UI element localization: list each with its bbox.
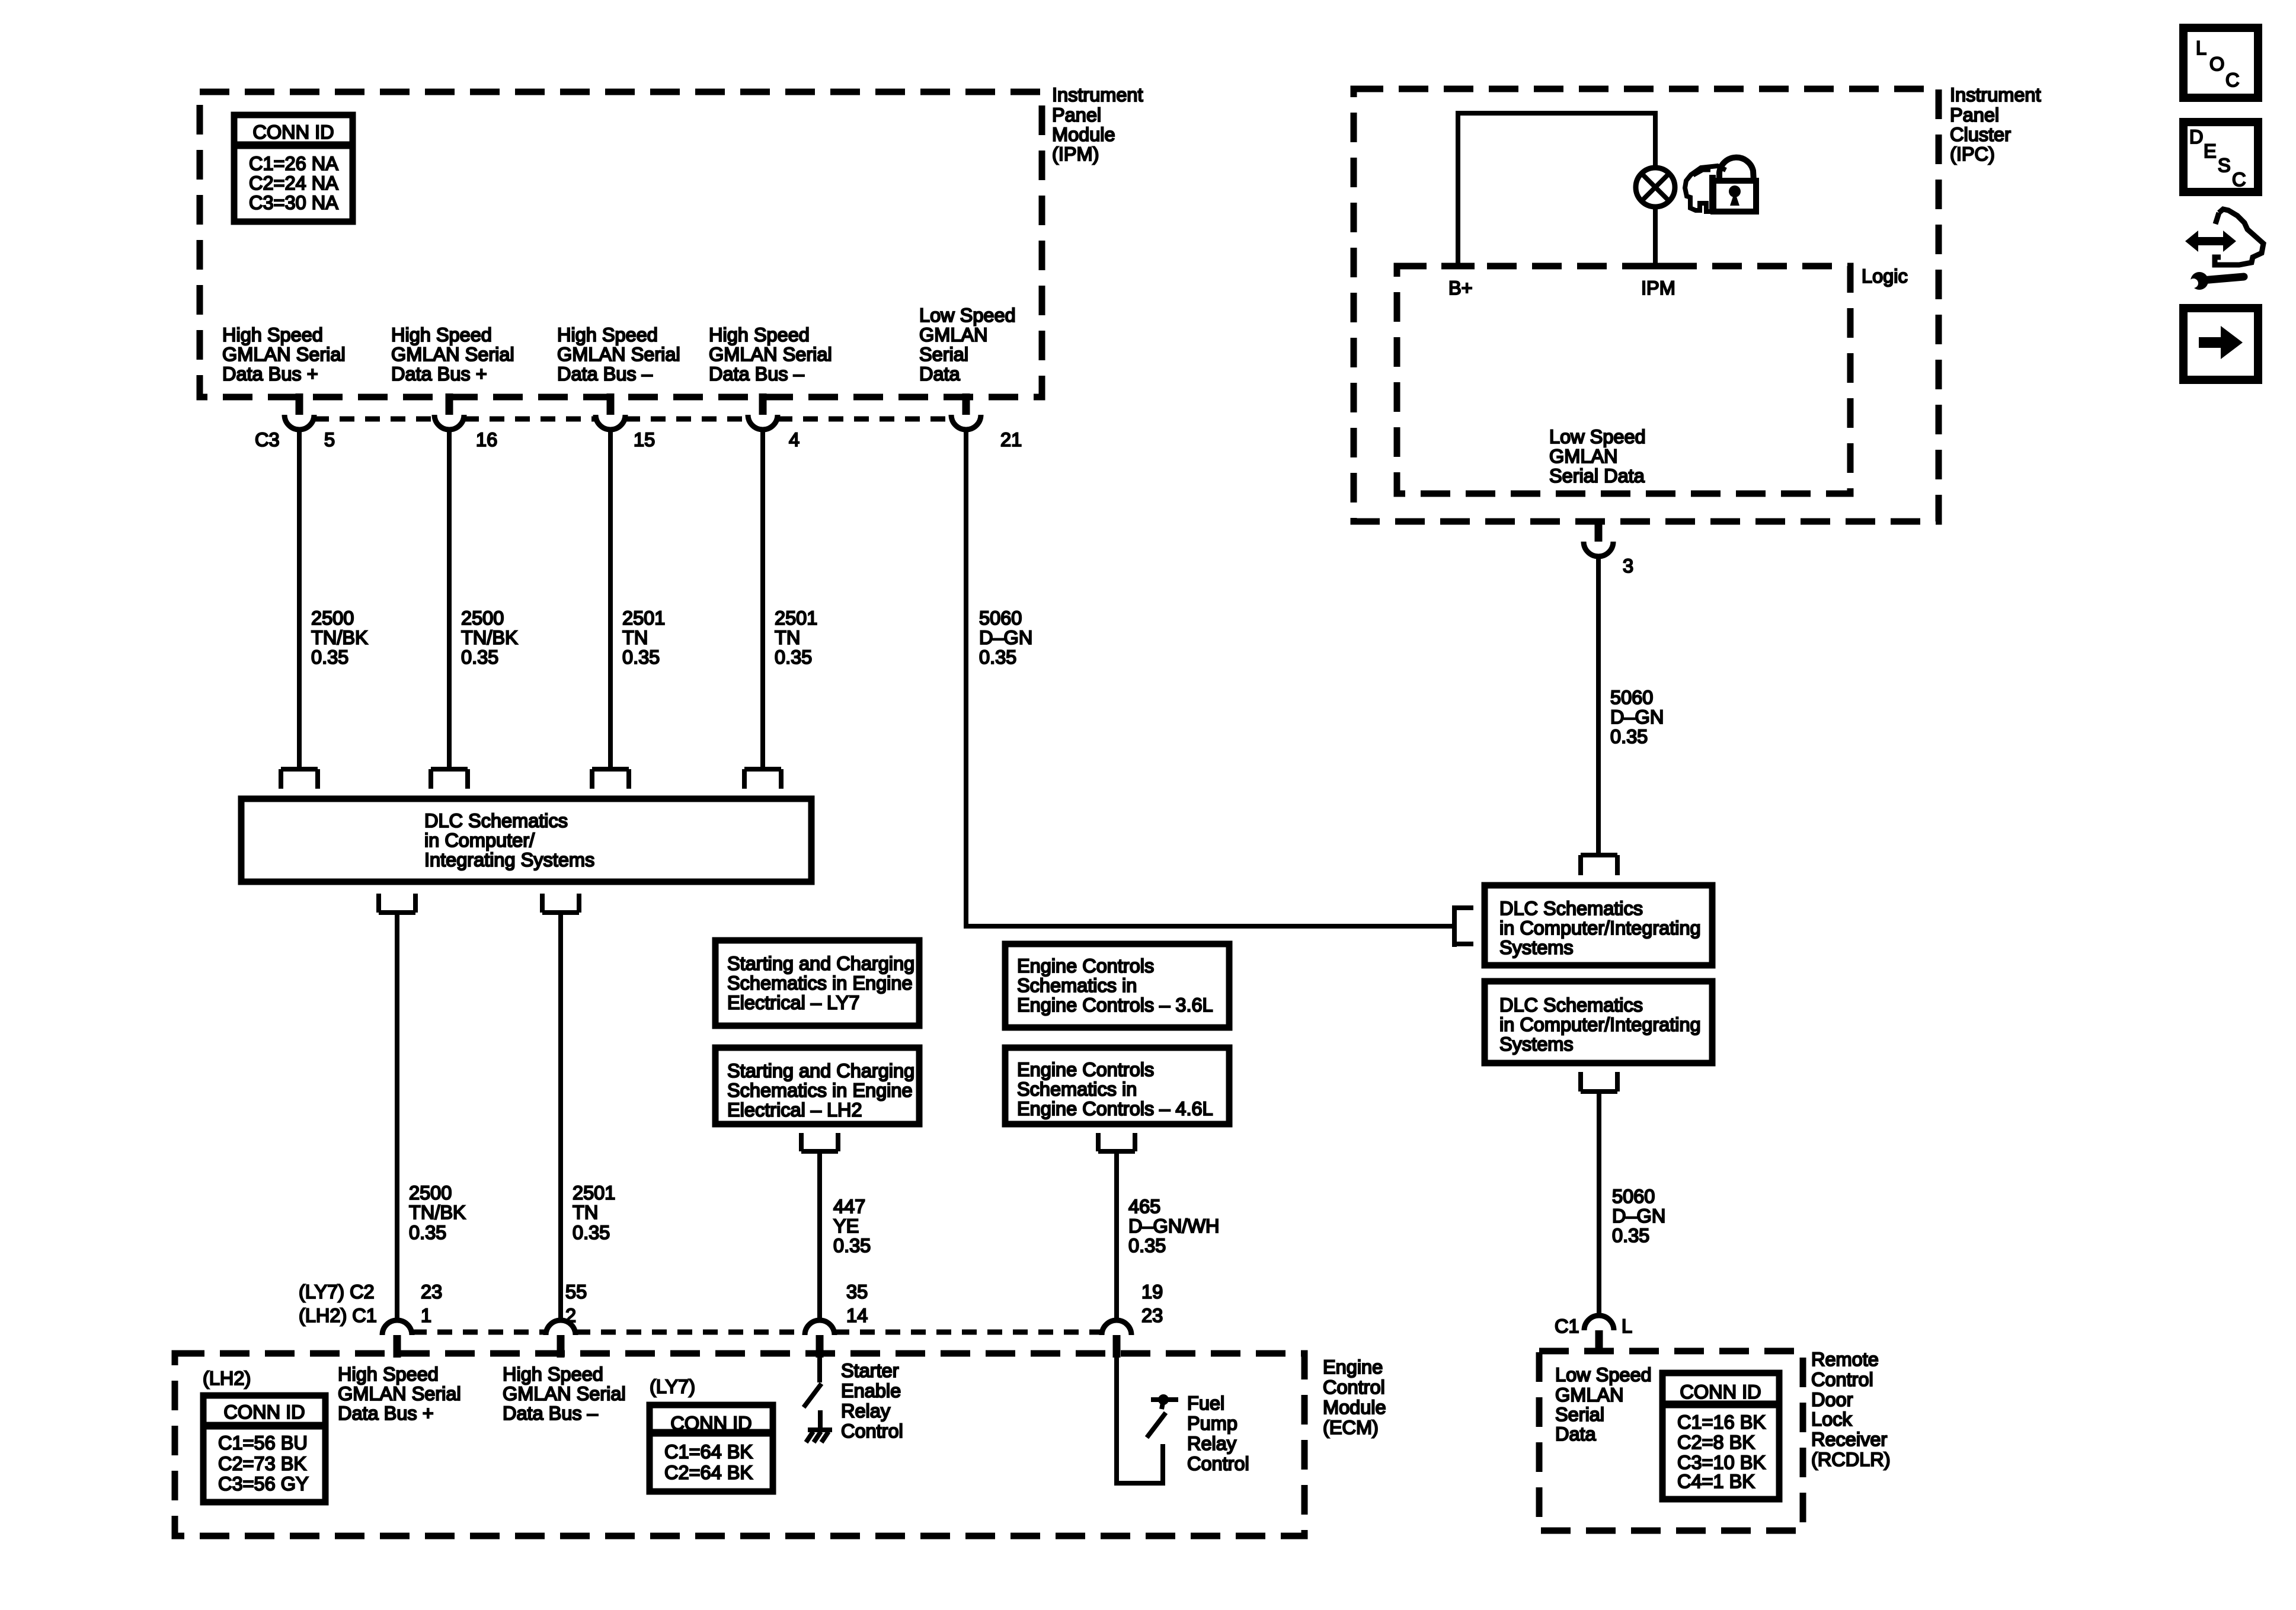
- svg-text:Data Bus +: Data Bus +: [222, 363, 318, 385]
- svg-text:2501: 2501: [775, 607, 817, 629]
- box: DLC Schematics in Computer/Integrating Systems (right 1): [1485, 885, 1712, 965]
- wire label: 2501 TN 0.35: [775, 607, 817, 668]
- svg-text:Schematics in Engine: Schematics in Engine: [727, 972, 913, 994]
- svg-text:Data Bus –: Data Bus –: [503, 1403, 599, 1424]
- svg-text:C1=56 BU: C1=56 BU: [218, 1432, 308, 1454]
- svg-text:21: 21: [1000, 429, 1022, 450]
- svg-text:Starting and Charging: Starting and Charging: [727, 1060, 914, 1081]
- svg-text:B+: B+: [1448, 277, 1473, 299]
- icon: vehicle with padlock (security): [1685, 158, 1756, 212]
- svg-text:Control: Control: [1811, 1369, 1873, 1390]
- wire: 2501 TN DLC to ECM pin 55/2: [558, 913, 563, 1321]
- svg-text:Engine Controls – 3.6L: Engine Controls – 3.6L: [1017, 994, 1213, 1016]
- svg-text:High Speed: High Speed: [391, 324, 492, 345]
- svg-text:O: O: [2209, 53, 2224, 75]
- svg-text:Data Bus –: Data Bus –: [709, 363, 805, 385]
- connector IPC pin 3 (stub and cup): [1584, 520, 1613, 556]
- wire: 2501 TN pin 15 to DLC: [608, 428, 613, 769]
- bracket: wire 15 into left DLC box top: [592, 769, 629, 789]
- svg-text:(LY7) C2: (LY7) C2: [299, 1281, 375, 1302]
- bracket: left DLC box bottom to wire B: [542, 894, 579, 913]
- svg-text:D–GN: D–GN: [1610, 706, 1664, 728]
- svg-text:C1=16 BK: C1=16 BK: [1677, 1411, 1766, 1433]
- svg-text:D: D: [2189, 126, 2203, 148]
- svg-text:C1=26 NA: C1=26 NA: [249, 153, 338, 174]
- svg-text:Data Bus +: Data Bus +: [338, 1403, 434, 1424]
- svg-text:Electrical – LH2: Electrical – LH2: [727, 1099, 862, 1121]
- pin label: High Speed GMLAN Serial Data Bus - (pin 15): [557, 324, 680, 385]
- svg-text:TN/BK: TN/BK: [409, 1202, 466, 1223]
- svg-text:(RCDLR): (RCDLR): [1811, 1449, 1891, 1470]
- svg-text:Schematics in: Schematics in: [1017, 975, 1137, 996]
- wire: 2501 TN pin 4 to DLC: [760, 428, 765, 769]
- svg-text:(LY7): (LY7): [650, 1376, 695, 1397]
- svg-text:23: 23: [421, 1281, 442, 1302]
- svg-text:0.35: 0.35: [311, 646, 348, 668]
- in-line harness connector dashed line (IPM C3): [314, 417, 951, 422]
- svg-text:5060: 5060: [1610, 687, 1653, 708]
- wire: lamp to logic box: [1653, 207, 1658, 266]
- svg-text:GMLAN: GMLAN: [1555, 1384, 1624, 1406]
- label: Low Speed GMLAN Serial Data (RCDLR): [1555, 1364, 1652, 1445]
- svg-text:Low Speed: Low Speed: [1549, 426, 1646, 447]
- svg-text:Logic: Logic: [1862, 265, 1908, 287]
- svg-text:C2=8 BK: C2=8 BK: [1677, 1432, 1755, 1453]
- svg-text:Serial Data: Serial Data: [1549, 465, 1645, 486]
- svg-text:Control: Control: [841, 1420, 903, 1442]
- bracket: wire 16 into left DLC box top: [431, 769, 468, 789]
- svg-text:Data Bus +: Data Bus +: [391, 363, 487, 385]
- box: Engine Controls Schematics in Engine Controls - 3.6L: [1005, 944, 1229, 1028]
- svg-text:E: E: [2204, 140, 2217, 162]
- svg-text:55: 55: [565, 1281, 587, 1302]
- bracket: wire 4 into left DLC box top: [744, 769, 781, 789]
- svg-text:Schematics in Engine: Schematics in Engine: [727, 1080, 913, 1101]
- box: DLC Schematics in Computer/Integrating Systems (right 2): [1485, 981, 1712, 1063]
- svg-text:High Speed: High Speed: [503, 1363, 603, 1385]
- svg-text:C1=64 BK: C1=64 BK: [664, 1441, 753, 1462]
- svg-text:C: C: [2232, 169, 2246, 190]
- svg-text:Instrument: Instrument: [1950, 84, 2041, 105]
- pin labels: (LY7) C2 23 / (LH2) C1 1: [299, 1281, 377, 1326]
- svg-text:(LH2): (LH2): [203, 1368, 251, 1389]
- svg-text:Enable: Enable: [841, 1380, 901, 1401]
- svg-text:Low Speed: Low Speed: [919, 305, 1016, 326]
- icon: LOC box: [2183, 28, 2258, 98]
- svg-text:0.35: 0.35: [461, 646, 498, 668]
- svg-text:447: 447: [833, 1196, 865, 1217]
- svg-text:Data Bus –: Data Bus –: [557, 363, 653, 385]
- svg-text:0.35: 0.35: [979, 646, 1016, 668]
- table: RCDLR CONN ID: [1662, 1373, 1779, 1499]
- svg-text:35: 35: [846, 1281, 868, 1302]
- svg-text:in Computer/Integrating: in Computer/Integrating: [1499, 1014, 1701, 1035]
- svg-text:23: 23: [1141, 1305, 1163, 1326]
- label: Instrument Panel Module (IPM): [1052, 84, 1143, 165]
- svg-text:Schematics in: Schematics in: [1017, 1078, 1137, 1100]
- svg-text:2500: 2500: [409, 1182, 452, 1204]
- svg-text:High Speed: High Speed: [709, 324, 810, 345]
- svg-text:GMLAN Serial: GMLAN Serial: [338, 1383, 461, 1404]
- svg-text:GMLAN: GMLAN: [1549, 446, 1618, 467]
- svg-text:Serial: Serial: [1555, 1404, 1604, 1425]
- module box: Instrument Panel Module (IPM): [200, 92, 1042, 397]
- logic box top edge dash at B+ pin: [1441, 263, 1475, 270]
- svg-text:0.35: 0.35: [622, 646, 660, 668]
- svg-text:High Speed: High Speed: [222, 324, 323, 345]
- connector RCDLR pin L (cup and stub): [1584, 1315, 1614, 1353]
- svg-text:Relay: Relay: [841, 1400, 891, 1422]
- wire: 5060 D-GN DLC to RCDLR: [1597, 1092, 1601, 1317]
- svg-text:Starter: Starter: [841, 1360, 899, 1381]
- connector pin 4 (stub and cup): [748, 393, 778, 430]
- label: Fuel Pump Relay Control: [1187, 1393, 1249, 1474]
- box: DLC Schematics in Computer/Integrating Systems (left): [241, 799, 811, 882]
- table: LY7 CONN ID: [650, 1405, 773, 1491]
- svg-text:GMLAN Serial: GMLAN Serial: [557, 344, 680, 365]
- label: Starter Enable Relay Control: [841, 1360, 903, 1442]
- label: Low Speed GMLAN Serial Data (IPC): [1549, 426, 1646, 486]
- svg-text:Electrical – LY7: Electrical – LY7: [727, 992, 859, 1013]
- svg-text:CONN ID: CONN ID: [223, 1401, 305, 1423]
- svg-text:0.35: 0.35: [573, 1222, 610, 1243]
- svg-text:DLC Schematics: DLC Schematics: [1499, 994, 1643, 1016]
- svg-text:2500: 2500: [461, 607, 504, 629]
- svg-text:L: L: [1622, 1315, 1632, 1337]
- svg-text:Serial: Serial: [919, 344, 968, 365]
- wire label: 5060 D-GN 0.35: [979, 607, 1032, 668]
- svg-text:DLC Schematics: DLC Schematics: [1499, 898, 1643, 919]
- svg-text:Data: Data: [1555, 1423, 1597, 1445]
- logic box top edge dash at IPM pin: [1639, 263, 1672, 270]
- svg-text:Starting and Charging: Starting and Charging: [727, 953, 914, 974]
- icon: right arrow box: [2183, 308, 2258, 380]
- svg-text:Control: Control: [1323, 1377, 1385, 1398]
- bracket: wire into right DLC box 1 top: [1581, 855, 1617, 875]
- wire label: 5060 D-GN 0.35: [1610, 687, 1664, 747]
- svg-text:Relay: Relay: [1187, 1433, 1237, 1454]
- svg-text:Engine: Engine: [1323, 1356, 1383, 1378]
- module box: Instrument Panel Cluster (IPC): [1354, 89, 1939, 521]
- svg-text:C4=1 BK: C4=1 BK: [1677, 1471, 1755, 1492]
- svg-text:in Computer/: in Computer/: [424, 830, 535, 851]
- svg-text:L: L: [2196, 37, 2207, 59]
- bracket: left DLC box bottom to wire A: [379, 894, 415, 913]
- pin label: High Speed GMLAN Serial Data Bus + (pin 5): [222, 324, 346, 385]
- pin label: High Speed GMLAN Serial Data Bus - (pin 4): [709, 324, 832, 385]
- svg-text:(IPM): (IPM): [1052, 143, 1099, 165]
- connector pin 21 (stub and cup): [951, 393, 981, 430]
- svg-text:CONN ID: CONN ID: [670, 1413, 752, 1434]
- label: Remote Control Door Lock Receiver (RCDLR): [1811, 1349, 1891, 1470]
- pin labels: 55 / 2: [565, 1281, 587, 1326]
- connector ECM pin 19/23 (cup and stub): [1102, 1320, 1131, 1358]
- svg-text:DLC Schematics: DLC Schematics: [424, 810, 568, 831]
- wire label: 2500 TN/BK 0.35: [311, 607, 368, 668]
- pin label: Low Speed GMLAN Serial Data (pin 21): [919, 305, 1016, 385]
- svg-text:C1: C1: [1555, 1315, 1579, 1337]
- module box: Remote Control Door Lock Receiver (RCDLR): [1539, 1351, 1803, 1531]
- svg-text:C3: C3: [255, 429, 280, 450]
- wire: 2500 TN/BK DLC to ECM pin 23/1: [395, 913, 399, 1321]
- svg-text:Systems: Systems: [1499, 937, 1574, 958]
- svg-text:High Speed: High Speed: [338, 1363, 439, 1385]
- label: Instrument Panel Cluster (IPC): [1950, 84, 2041, 165]
- wire: B+ feed and lamp feed: [1458, 113, 1655, 266]
- wire label: 2500 TN/BK 0.35: [461, 607, 518, 668]
- svg-text:Module: Module: [1052, 124, 1115, 145]
- wire label: 2501 TN 0.35: [573, 1182, 615, 1243]
- connector C3 pin 5 (stub and cup): [284, 393, 314, 430]
- svg-text:16: 16: [476, 429, 497, 450]
- wire: 2500 TN/BK pin 5 to DLC: [297, 428, 302, 769]
- svg-text:Low Speed: Low Speed: [1555, 1364, 1652, 1385]
- svg-text:Remote: Remote: [1811, 1349, 1879, 1370]
- svg-text:IPM: IPM: [1641, 277, 1675, 299]
- svg-text:Panel: Panel: [1052, 104, 1101, 126]
- bracket: right DLC box 2 bottom to wire: [1581, 1072, 1617, 1092]
- label: High Speed GMLAN Serial Data Bus + (ECM): [338, 1363, 461, 1424]
- svg-text:C2=73 BK: C2=73 BK: [218, 1453, 306, 1474]
- svg-text:High Speed: High Speed: [557, 324, 658, 345]
- wire label: 5060 D-GN 0.35: [1612, 1186, 1665, 1246]
- bracket: wire into right DLC box 1 left side: [1454, 905, 1473, 947]
- wire label: 2501 TN 0.35: [622, 607, 665, 668]
- connector pin 16 (stub and cup): [434, 393, 464, 430]
- svg-text:Engine Controls – 4.6L: Engine Controls – 4.6L: [1017, 1098, 1213, 1119]
- svg-text:Panel: Panel: [1950, 104, 1999, 126]
- svg-text:19: 19: [1141, 1281, 1163, 1302]
- svg-text:0.35: 0.35: [833, 1235, 871, 1256]
- svg-text:(IPC): (IPC): [1950, 143, 1995, 165]
- svg-text:C2=64 BK: C2=64 BK: [664, 1462, 753, 1483]
- table: LH2 CONN ID: [203, 1395, 325, 1502]
- svg-text:TN/BK: TN/BK: [461, 627, 518, 648]
- icon: diagnostic wrench with double arrow: [2182, 209, 2263, 297]
- svg-text:0.35: 0.35: [775, 646, 812, 668]
- box: Starting and Charging Schematics in Engine Electrical - LH2: [715, 1048, 919, 1124]
- wire: 5060 D-GN IPC to right DLC box: [1596, 555, 1601, 855]
- svg-text:TN: TN: [573, 1202, 598, 1223]
- svg-text:Data: Data: [919, 363, 961, 385]
- symbol: starter enable relay switch and ground: [804, 1358, 832, 1442]
- svg-text:CONN ID: CONN ID: [252, 121, 334, 143]
- svg-text:D–GN: D–GN: [1612, 1205, 1665, 1227]
- svg-text:GMLAN Serial: GMLAN Serial: [391, 344, 514, 365]
- svg-text:S: S: [2218, 155, 2231, 176]
- svg-text:CONN ID: CONN ID: [1680, 1381, 1761, 1403]
- svg-text:5060: 5060: [1612, 1186, 1655, 1207]
- symbol: fuel pump relay switch: [1117, 1358, 1178, 1483]
- svg-text:(ECM): (ECM): [1323, 1417, 1379, 1438]
- svg-text:Engine Controls: Engine Controls: [1017, 955, 1154, 977]
- svg-text:5: 5: [324, 429, 335, 450]
- svg-text:3: 3: [1623, 555, 1633, 577]
- svg-text:D–GN/WH: D–GN/WH: [1128, 1215, 1219, 1237]
- label: High Speed GMLAN Serial Data Bus - (ECM): [503, 1363, 626, 1424]
- svg-text:Receiver: Receiver: [1811, 1429, 1887, 1450]
- pin label: High Speed GMLAN Serial Data Bus + (pin 16): [391, 324, 514, 385]
- in-line harness connector dashed line (ECM): [412, 1330, 1102, 1335]
- svg-text:0.35: 0.35: [1128, 1235, 1166, 1256]
- svg-text:5060: 5060: [979, 607, 1022, 629]
- svg-text:Control: Control: [1187, 1453, 1249, 1474]
- svg-text:GMLAN Serial: GMLAN Serial: [503, 1383, 626, 1404]
- svg-text:GMLAN: GMLAN: [919, 324, 988, 345]
- svg-text:465: 465: [1128, 1196, 1160, 1217]
- svg-text:2500: 2500: [311, 607, 354, 629]
- svg-text:C3=10 BK: C3=10 BK: [1677, 1452, 1766, 1473]
- wire: 5060 D-GN pin 21 to right DLC box: [966, 428, 1454, 926]
- box: Engine Controls Schematics in Engine Controls - 4.6L: [1005, 1048, 1229, 1124]
- svg-text:Pump: Pump: [1187, 1413, 1237, 1434]
- svg-text:14: 14: [846, 1305, 868, 1326]
- svg-text:15: 15: [634, 429, 655, 450]
- svg-text:GMLAN Serial: GMLAN Serial: [222, 344, 346, 365]
- svg-text:Door: Door: [1811, 1389, 1853, 1410]
- svg-text:4: 4: [789, 429, 800, 450]
- connector ECM pin 23/1 (cup and stub): [382, 1320, 412, 1358]
- svg-text:C2=24 NA: C2=24 NA: [249, 172, 338, 194]
- svg-text:C3=30 NA: C3=30 NA: [249, 192, 338, 213]
- svg-text:in Computer/Integrating: in Computer/Integrating: [1499, 917, 1701, 939]
- svg-text:D–GN: D–GN: [979, 627, 1032, 648]
- svg-text:1: 1: [421, 1305, 431, 1326]
- connector ECM pin 55/2 (cup and stub): [546, 1320, 575, 1358]
- svg-text:2501: 2501: [622, 607, 665, 629]
- svg-text:C: C: [2225, 69, 2239, 91]
- wire label: 465 D-GN/WH 0.35: [1128, 1196, 1219, 1256]
- logic box (inner dashed): [1397, 266, 1850, 494]
- wire: 447 YE to ECM pin 35/14: [817, 1151, 822, 1321]
- svg-text:TN: TN: [775, 627, 800, 648]
- svg-text:Engine Controls: Engine Controls: [1017, 1059, 1154, 1080]
- connector ECM pin 35/14 (cup and stub): [805, 1320, 834, 1358]
- label: DLC Schematics in Computer/Integrating Systems: [424, 810, 594, 870]
- wire label: 2500 TN/BK 0.35: [409, 1182, 466, 1243]
- lamp: security indicator: [1636, 168, 1675, 207]
- bracket: LH2 box bottom to wire 447: [801, 1133, 838, 1151]
- wire: 465 D-GN/WH to ECM pin 19/23: [1114, 1151, 1119, 1321]
- icon: DESC box: [2183, 122, 2258, 192]
- wire label: 447 YE 0.35: [833, 1196, 871, 1256]
- box: Starting and Charging Schematics in Engine Electrical - LY7: [715, 940, 919, 1026]
- connector pin 15 (stub and cup): [596, 393, 625, 430]
- bracket: 4.6L box bottom to wire 465: [1098, 1133, 1135, 1151]
- svg-text:TN/BK: TN/BK: [311, 627, 368, 648]
- module box: Engine Control Module (ECM): [175, 1353, 1304, 1536]
- svg-text:Cluster: Cluster: [1950, 124, 2011, 145]
- svg-text:GMLAN Serial: GMLAN Serial: [709, 344, 832, 365]
- bracket: wire 5 into left DLC box top (pin5): [281, 769, 318, 789]
- wire: 2500 TN/BK pin 16 to DLC: [447, 428, 452, 769]
- svg-text:(LH2) C1: (LH2) C1: [299, 1305, 377, 1326]
- pin labels: 35 / 14: [846, 1281, 868, 1326]
- svg-text:TN: TN: [622, 627, 648, 648]
- svg-text:Fuel: Fuel: [1187, 1393, 1224, 1414]
- svg-text:Lock: Lock: [1811, 1409, 1852, 1430]
- svg-text:0.35: 0.35: [1610, 726, 1648, 747]
- svg-text:Instrument: Instrument: [1052, 84, 1143, 105]
- svg-text:0.35: 0.35: [1612, 1225, 1649, 1246]
- pin labels: 19 / 23: [1141, 1281, 1163, 1326]
- table: IPM CONN ID: [234, 115, 353, 222]
- svg-text:C3=56 GY: C3=56 GY: [218, 1473, 309, 1494]
- svg-text:Integrating Systems: Integrating Systems: [424, 849, 594, 870]
- svg-text:2501: 2501: [573, 1182, 615, 1204]
- svg-text:Systems: Systems: [1499, 1033, 1574, 1055]
- svg-text:YE: YE: [833, 1215, 859, 1237]
- label: Engine Control Module (ECM): [1323, 1356, 1386, 1438]
- svg-text:Module: Module: [1323, 1397, 1386, 1418]
- svg-text:0.35: 0.35: [409, 1222, 446, 1243]
